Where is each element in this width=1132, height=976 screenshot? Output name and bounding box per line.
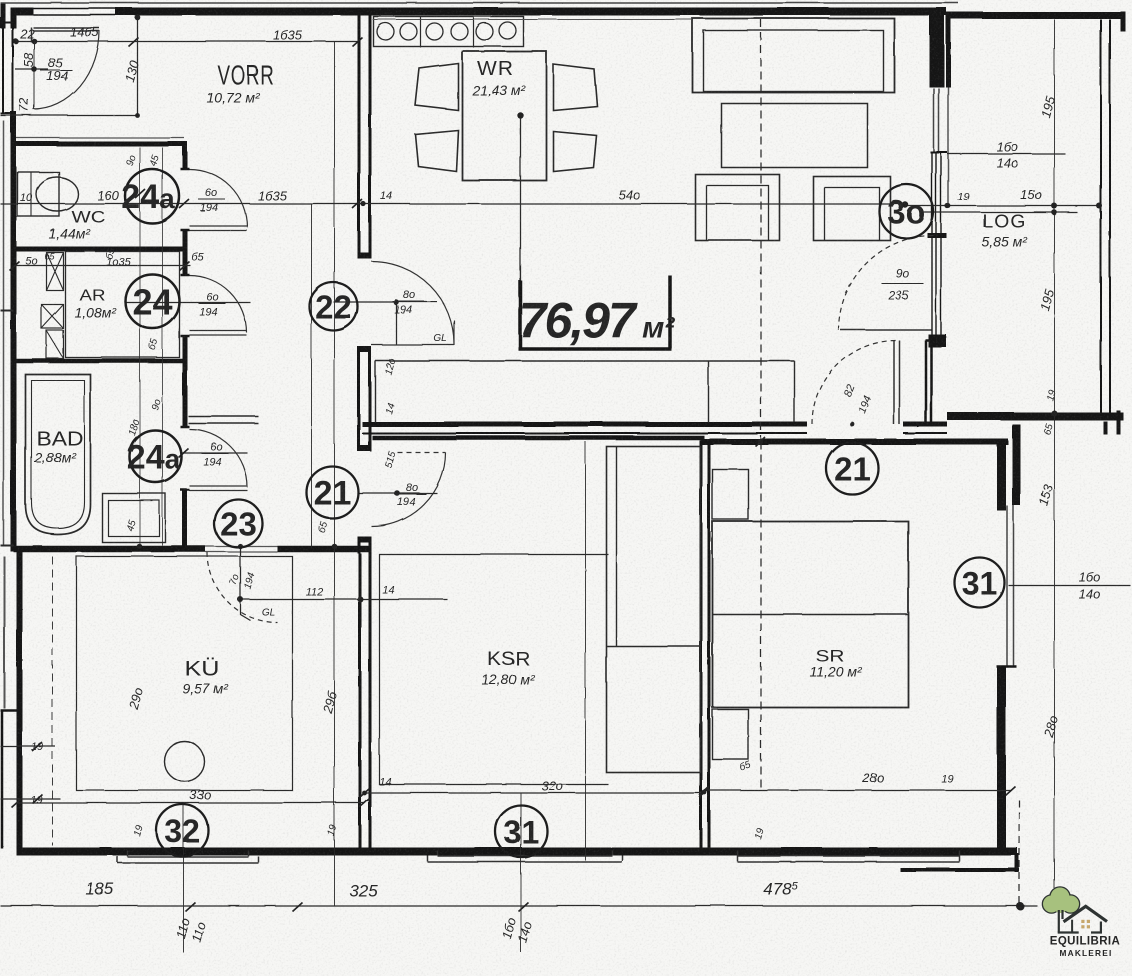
- shaft hatch box 3: [46, 330, 63, 358]
- dim vertical x1019 dashed: [1018, 800, 1020, 903]
- logo house roof: [1064, 906, 1108, 922]
- doors group: [31, 27, 933, 622]
- dim vertical x52 KU dashed: [51, 556, 53, 845]
- wall WC top: [13, 141, 187, 146]
- dim line entrance y69: [15, 68, 48, 70]
- wall SR right outer pier top: [1012, 424, 1020, 505]
- wall LOG/WR boundary upper: [946, 15, 951, 87]
- wall WR right (balcony side) top piece: [929, 14, 944, 87]
- dim vertical x760 SR: [760, 441, 762, 792]
- wall balcony glass sill tick: [930, 151, 947, 153]
- couch outer: [692, 18, 894, 92]
- washer BAD: [102, 493, 165, 542]
- dim vertical 70/194 connector: [240, 546, 250, 620]
- wall KSR/SR separation: [701, 440, 709, 853]
- logo equilibria: [1043, 888, 1120, 959]
- dim vertical x585 KSR: [584, 441, 586, 860]
- dim line short y212: [920, 211, 1077, 213]
- room labels: [33, 58, 1028, 696]
- wire top hairline: [0, 2, 958, 4]
- furniture group: [17, 16, 908, 790]
- dim line 330 KU: [16, 802, 364, 804]
- dim vertical x520 bottom through 31: [520, 792, 522, 952]
- dining table: [462, 51, 546, 180]
- coffee table: [721, 103, 867, 167]
- wall corridor left (WC/AR/BAD right) with door openings: [182, 143, 187, 551]
- armchair right: [813, 176, 890, 240]
- dim vertical x137: [136, 14, 138, 115]
- wall block below window: [928, 334, 946, 347]
- wall loggia bottom right tab: [1105, 410, 1118, 434]
- logo house window panes: [1081, 920, 1090, 929]
- wall BAD bottom / kitchen top: [13, 545, 371, 552]
- wall left step tick: [0, 709, 16, 712]
- dim line y115: [0, 114, 137, 116]
- wall LOG right double line: [1101, 19, 1110, 412]
- wall KSR top lower face: [372, 435, 704, 440]
- windows in bottom wall (sills): [117, 850, 959, 863]
- wall SR right lower pier: [997, 666, 1006, 853]
- window KSR sill: [427, 850, 622, 862]
- chair top-left: [415, 63, 458, 110]
- wall building right end cap: [1120, 11, 1125, 31]
- dim vertical x162 corridor: [161, 147, 163, 545]
- bed SR: [712, 521, 908, 707]
- dim line y265 WC: [14, 264, 190, 266]
- toilet WC: [17, 172, 59, 216]
- door 23 KU arc dashed: [207, 552, 277, 622]
- circle 23: [214, 499, 262, 547]
- burner circles: [377, 23, 394, 40]
- wire LOG/WR boundary lower: [947, 87, 949, 205]
- dim line 24 door y302: [126, 301, 250, 303]
- AR inner room outline: [65, 251, 179, 357]
- dim vertical entrance x34: [33, 41, 35, 109]
- door entrance arc: [33, 30, 99, 109]
- dim vertical x760 WR dashed: [760, 19, 762, 441]
- logo left house body: [1071, 920, 1073, 933]
- circle 31 bottom: [495, 805, 547, 857]
- chair bottom-left: [415, 130, 458, 171]
- wall balcony jamb block: [929, 81, 944, 87]
- dim line 160/140 right SR: [1008, 584, 1130, 586]
- wall WC bottom: [13, 246, 187, 251]
- wall left window ticks: [0, 310, 13, 545]
- window left entrance double line: [0, 22, 16, 113]
- window KU sill: [117, 850, 258, 863]
- wall WR bottom upper face: [362, 422, 947, 427]
- KU sink circle: [164, 741, 204, 781]
- wall SR right window end tick: [996, 665, 1016, 668]
- wall AR bottom: [13, 358, 187, 363]
- window SR sill: [737, 850, 959, 862]
- wire kitchen left outer line: [3, 556, 5, 708]
- circle 24a WC: [125, 169, 179, 223]
- dim line 22 door y302: [333, 301, 437, 303]
- wall SR right upper pier: [997, 441, 1006, 510]
- chair bottom-right: [553, 131, 596, 171]
- dim chain y203: [0, 203, 905, 205]
- circle number texts: [121, 178, 997, 850]
- dim line 320 KSR: [364, 792, 704, 794]
- circle 3o: [879, 184, 933, 238]
- circle 31 right: [954, 557, 1004, 607]
- door AR arc + leaf: [189, 275, 246, 335]
- wire door23 threshold: [205, 546, 277, 552]
- door WC arc + leaf: [189, 169, 247, 230]
- shaft hatch box 1: [46, 252, 63, 290]
- door SR arc dashed + leaf: [812, 340, 896, 424]
- bathtub BAD: [25, 374, 90, 534]
- dim line 24a door y452: [181, 452, 247, 454]
- KSR floor inner line: [379, 554, 608, 784]
- logo tree trunk: [1059, 910, 1063, 933]
- logo house right wall: [1100, 922, 1102, 933]
- door 21 KSR arc: [371, 452, 445, 526]
- dim vertical x139 corridor: [139, 147, 141, 545]
- circle 24a BAD: [129, 430, 181, 482]
- dim vertical x334 long: [333, 41, 335, 905]
- wall WR right lower piece: [926, 340, 932, 424]
- shaft hatch box 2: [41, 304, 63, 328]
- window SR right glass: [1007, 505, 1014, 666]
- dim chain bottom y906: [0, 905, 1037, 907]
- wall SR sill outer bottom right: [900, 868, 1019, 872]
- dim line y599: [237, 598, 447, 600]
- wall loggia bottom: [947, 412, 1123, 420]
- dim line right y205: [905, 205, 1099, 207]
- wall tick mid window: [927, 233, 946, 238]
- wire left outer window line: [2, 120, 4, 545]
- dim line 160/140 y153: [947, 153, 1065, 155]
- wall SR top: [700, 439, 1008, 445]
- wall entrance opening thin lines: [33, 8, 115, 15]
- door balcony arc dashed + open line: [838, 235, 933, 330]
- dim line top y41: [14, 40, 357, 42]
- wall main vertical right face: [368, 14, 371, 553]
- nightstand bottom: [712, 709, 748, 759]
- logo house floor: [1058, 931, 1102, 933]
- dim vertical x1054: [1053, 19, 1055, 888]
- position number circles: [125, 169, 1004, 857]
- wall SR sill right vertical: [1015, 853, 1019, 872]
- wall loggia top: [946, 12, 1125, 19]
- wall WR right step tick: [925, 339, 941, 342]
- window WR right lower glass lines: [932, 152, 941, 334]
- couch inner: [703, 30, 883, 91]
- dim line KU 19 left: [0, 746, 60, 799]
- wall left exterior upper corner: [10, 8, 16, 28]
- sideboard band WR: [375, 361, 794, 423]
- wall KU/KSR separation: [360, 553, 370, 853]
- dim line 280 SR: [704, 789, 1010, 791]
- wall WR bottom lower face: [362, 432, 947, 434]
- circle 32: [156, 804, 208, 856]
- wall main vertical (VORR/WR) left face: [357, 14, 360, 553]
- wall bottom exterior: [16, 847, 1017, 855]
- circle 22: [309, 282, 357, 330]
- wire WR top inner face: [372, 18, 692, 20]
- dim vertical x520: [519, 115, 521, 311]
- area box 76,97: [518, 275, 675, 349]
- door 22 arc + leaf line: [371, 261, 454, 345]
- door BAD arc + leaf: [189, 429, 247, 490]
- dim vertical x311: [310, 203, 312, 548]
- circle 21 SR: [826, 442, 878, 494]
- slash ticks group: [9, 37, 1015, 911]
- KU inner rect: [76, 556, 292, 790]
- wall jamb blocks main vertical: [357, 255, 371, 539]
- wire WC top inner line: [16, 137, 184, 139]
- wall left outer edge lower: [0, 711, 3, 848]
- door AR open leaf lines: [188, 416, 258, 423]
- window balcony glass door: [934, 88, 939, 152]
- armchair left: [695, 174, 779, 240]
- dim line 21 door y493: [358, 492, 437, 494]
- scan edge artifact top-left: [0, 2, 5, 28]
- dim vertical x183 through 32: [182, 802, 184, 952]
- wall left exterior main: [10, 111, 16, 551]
- chair top-right: [553, 64, 597, 110]
- wall kitchen left: [16, 551, 22, 853]
- circle 24 AR: [125, 274, 179, 328]
- kitchen counter WR top: [373, 16, 523, 46]
- circle 21 corridor: [306, 466, 358, 518]
- fraction lines for door dims: [40, 70, 923, 494]
- dim vertical 80/194 connector: [395, 302, 397, 344]
- wardrobe KSR: [606, 446, 700, 772]
- wall door jamb ticks corridor: [180, 169, 189, 490]
- logo tree cloud: [1043, 888, 1079, 913]
- nightstand top: [712, 469, 748, 519]
- wall top exterior: [10, 7, 946, 15]
- door entrance leaf: [31, 27, 99, 42]
